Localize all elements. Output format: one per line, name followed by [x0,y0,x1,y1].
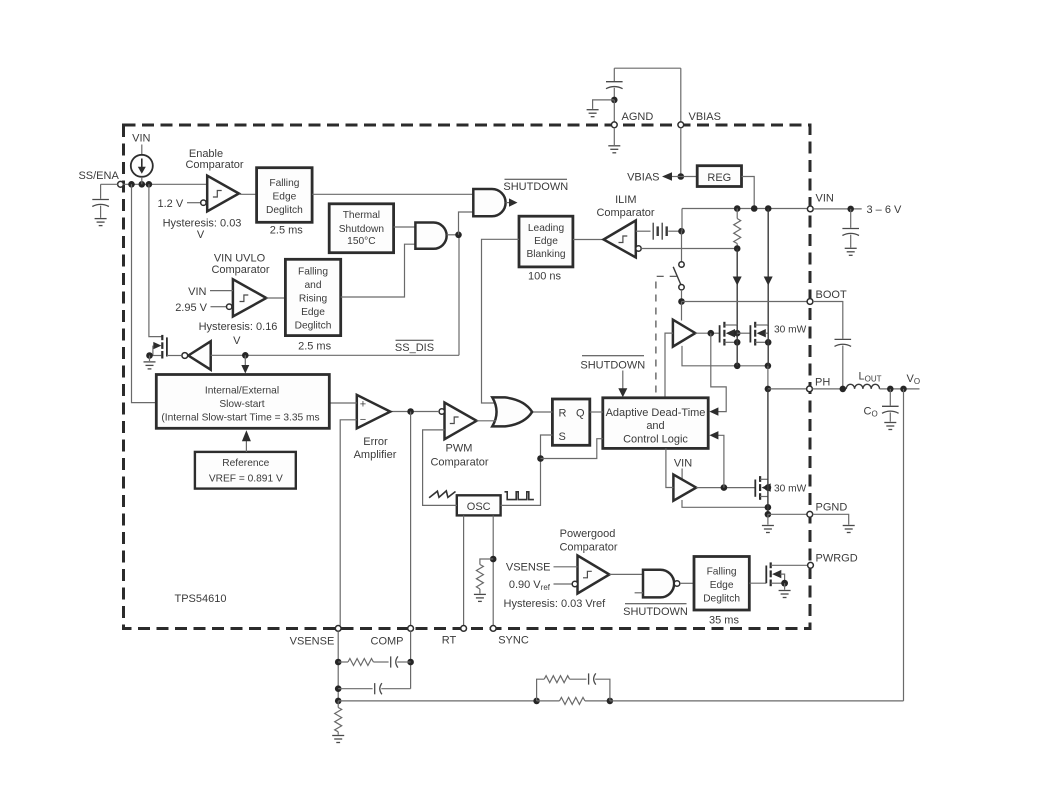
inverter U2 [167,341,211,369]
svg-text:Falling: Falling [298,267,328,278]
svg-text:SHUTDOWN: SHUTDOWN [623,606,688,618]
node VIN input UVLO [188,286,233,298]
resistor feedback parallel branch [537,676,587,701]
svg-text:Deglitch: Deglitch [703,594,740,605]
wire driver input from adaptive logic [666,448,674,487]
capacitor bootstrap [813,302,851,389]
svg-text:35 ms: 35 ms [709,615,739,627]
wire error amp minus to VSENSE [340,420,357,626]
clock symbol pulses [505,492,534,500]
svg-text:and: and [305,280,322,291]
svg-text:Edge: Edge [534,236,558,247]
wire to M4 drain [149,184,162,336]
svg-text:AGND: AGND [622,111,654,123]
ground below M4 [144,362,156,369]
wire PGND rail [765,511,772,518]
wire VO feedback down [903,389,905,701]
switch ILIM [673,262,685,305]
block B5 Adaptive Dead-Time and Control Logic [603,398,708,449]
wire B4 to OR gate [482,239,520,403]
wire driver output to gates [695,332,719,334]
node 3-6V input [813,204,902,216]
svg-text:Comparator: Comparator [185,159,243,171]
svg-text:Reference: Reference [222,458,269,469]
svg-text:VIN: VIN [188,286,206,298]
wire clock branch to adaptive logic [541,439,603,459]
ground below M5 [779,591,791,598]
capacitor input VIN [842,209,859,248]
ground below CO [884,423,896,430]
svg-text:PGND: PGND [816,502,848,514]
wire current path arrow to M1 drain [733,249,742,326]
node 1.2 V reference input [158,198,207,210]
svg-text:COMP: COMP [371,635,404,647]
svg-text:PWM: PWM [446,442,473,454]
ground below SS/ENA cap [95,219,107,226]
transistor M4 slow-start discharge [146,335,167,361]
op-amp U9 Powergood Comparator [559,528,617,594]
node VSENSE pin [290,626,341,648]
svg-text:+: + [360,399,366,411]
svg-text:SS/ENA: SS/ENA [78,170,119,182]
node SYNC pin [490,626,529,647]
svg-text:Amplifier: Amplifier [354,449,397,461]
op-amp U7 Error Amplifier [354,395,397,461]
svg-text:Comparator: Comparator [596,207,654,219]
wire driver lower rail to source line [682,346,768,366]
wire VIN rail corner down to battery [681,209,683,232]
svg-text:Falling: Falling [707,567,737,578]
svg-text:Error: Error [363,436,388,448]
node SS/ENA pin [78,170,123,187]
svg-text:2.5 ms: 2.5 ms [270,224,304,236]
node PH pin [807,377,831,392]
svg-text:Adaptive Dead-Time: Adaptive Dead-Time [606,407,706,419]
block B2 Falling and Rising Edge Deglitch [285,259,340,352]
op-amp U1 Enable Comparator [185,148,243,211]
wire ILIM minus input [641,248,737,250]
wire VIN rail [682,208,807,210]
svg-text:Slow-start: Slow-start [219,399,264,410]
node hysteresis note [163,218,242,241]
wire driver lower rail [682,500,768,507]
wire current path arrow to M2 drain [764,209,773,326]
wire G2 output arrow [506,198,518,206]
wire enable comp to deglitch [239,193,257,195]
resistor VSENSE to ground [335,701,342,735]
node 2.95 V input [175,302,232,314]
wire ILIM comp to B4 [573,239,604,241]
ground below RT resistor [474,594,486,601]
svg-text:VIN: VIN [132,133,150,145]
block REG [681,166,742,187]
op-amp U4 ILIM Comparator [596,194,654,257]
wire SS/ENA to cap [101,183,118,185]
wire ILIM plus input [636,230,651,232]
svg-text:SS_DIS: SS_DIS [395,342,434,354]
svg-text:S: S [559,431,566,443]
ground left of AGND [587,110,599,117]
wire NAND to deglitch B10 [680,582,694,584]
wire gate feedback to adaptive logic low [709,431,724,488]
ground external PGND [813,514,855,532]
wire OSC clock to S input [501,435,553,505]
svg-text:Falling: Falling [269,178,299,189]
svg-text:VBIAS: VBIAS [689,111,721,123]
svg-text:VSENSE: VSENSE [506,562,551,574]
ground below M3 source [762,514,774,532]
ground below VIN cap [845,248,857,255]
wire VBIAS pin down to REG [680,128,682,177]
svg-text:30 mW: 30 mW [774,483,807,494]
block B9 OSC [457,495,501,515]
wire PH rail [767,366,769,389]
node PWRGD pin [808,553,858,569]
svg-text:3 – 6 V: 3 – 6 V [867,204,903,216]
latch B6 RS [552,399,589,445]
svg-text:Deglitch: Deglitch [295,321,332,332]
svg-text:Hysteresis: 0.03: Hysteresis: 0.03 [163,218,242,230]
block B1 Falling Edge Deglitch [257,168,313,237]
svg-text:Shutdown: Shutdown [339,224,384,235]
node COMP pin [371,626,414,648]
transistor M2 high-side parallel [750,322,806,366]
wire B2 to AND G1 [341,244,416,297]
svg-text:Thermal: Thermal [343,210,380,221]
node AGND pin [611,111,653,128]
gate G1 AND [415,223,446,249]
svg-text:Comparator: Comparator [559,541,617,553]
svg-text:150°C: 150°C [347,236,375,247]
wire COMP net down [410,412,412,626]
node hysteresis note UVLO [199,321,278,347]
svg-text:1.2 V: 1.2 V [158,198,184,210]
resistor feedback series [560,697,585,704]
svg-text:VBIAS: VBIAS [627,172,659,184]
svg-text:VIN: VIN [816,193,834,205]
node SHUTDOWN label powergood [623,604,688,618]
capacitor feedback parallel branch [589,673,610,701]
resistor RT-SYNC to ground [476,559,493,594]
svg-text:(Internal Slow-start Time = 3.: (Internal Slow-start Time = 3.35 ms [161,412,319,423]
svg-text:30 mW: 30 mW [774,324,807,335]
node AGND external cap [593,68,681,109]
wire SS_DIS line [211,354,459,356]
svg-text:SHUTDOWN: SHUTDOWN [503,181,568,193]
wire M1 body to M2 gate [737,332,750,334]
node SHUTDOWN label top [503,179,568,193]
capacitor comp CZ [391,656,411,667]
svg-text:Blanking: Blanking [526,249,565,260]
svg-text:PWRGD: PWRGD [816,553,858,565]
wire G1 output [447,234,456,236]
battery offset symbol [653,223,685,240]
node PGND pin [807,502,847,518]
svg-text:Comparator: Comparator [211,264,269,276]
node RT pin [442,626,467,647]
svg-text:Hysteresis: 0.16: Hysteresis: 0.16 [199,321,278,333]
svg-text:R: R [559,408,567,420]
gate G4 NAND powergood [635,570,680,598]
block B8 Reference [195,452,296,489]
svg-text:ILIM: ILIM [615,194,636,206]
svg-text:Leading: Leading [528,223,565,234]
high-side driver U5 [673,320,695,347]
svg-text:2.5 ms: 2.5 ms [298,340,332,352]
low-side driver U8 [673,475,696,501]
wire UVLO comp to deglitch B2 [266,297,285,299]
wire driver output to M3 gate [696,487,755,489]
svg-text:PH: PH [815,377,830,389]
capacitor comp CP branch [338,683,410,694]
node VSENSE input powergood [506,562,578,574]
IC boundary dashed border [124,125,811,629]
op-amp U6 PWM Comparator [430,403,488,469]
wire BOOT to high-side driver [681,302,683,321]
svg-text:Control Logic: Control Logic [623,434,688,446]
wire left vertical to slow-start [132,184,157,402]
wire PWM output to OR [477,420,496,422]
svg-text:Hysteresis: 0.03 Vref: Hysteresis: 0.03 Vref [504,598,607,610]
svg-text:OSC: OSC [467,501,491,513]
svg-text:V: V [233,335,241,347]
svg-text:Internal/External: Internal/External [205,385,279,396]
inductor LOUT [846,371,881,389]
wire COMP external vertical [410,631,412,688]
ramp symbol sawtooth [429,491,455,498]
node VO output [880,373,921,392]
wire BOOT rail [682,301,808,303]
block B10 Falling Edge Deglitch 35ms [694,557,749,627]
svg-text:Deglitch: Deglitch [266,205,303,216]
wire powergood comp to NAND [609,573,643,575]
node VIN label low-side driver [674,458,692,479]
svg-text:100 ns: 100 ns [528,270,562,282]
svg-text:VIN: VIN [674,458,692,470]
wire error amp out to PWM [390,411,439,413]
op-amp U3 VIN UVLO Comparator [211,253,269,317]
wire PH external [812,388,846,390]
wire OR gate to R input [532,411,552,413]
svg-text:Edge: Edge [273,192,297,203]
svg-text:SYNC: SYNC [498,634,529,646]
svg-text:V: V [197,229,205,241]
wire thermal to AND G1 [394,226,416,228]
resistor comp RZ [338,659,388,666]
wire SS_DIS up to AND output node [458,235,460,355]
capacitor C_ssena [92,184,109,218]
node 0.90 Vref input [509,579,578,592]
block B3 Thermal Shutdown [329,204,393,253]
wire deglitch to PWRGD fet gate [749,582,766,584]
ground below VSENSE resistor [332,736,344,743]
node SHUTDOWN label into adaptive logic [580,356,645,398]
block B7 Internal/External Slow-start [156,375,329,429]
transistor M5 PWRGD open drain [766,562,807,589]
wire dashed ILIM control to adaptive logic [656,276,677,398]
svg-text:Q: Q [576,408,585,420]
wire VSENSE external vertical [337,631,339,701]
resistor Rsense [734,209,741,252]
transistor M3 low-side [755,389,806,514]
svg-text:RT: RT [442,634,457,646]
wire gate feedback to adaptive logic [709,333,726,416]
wire deglitch to AND G2 [312,193,473,195]
wire REG output to VIN rail [742,177,755,209]
svg-text:BOOT: BOOT [816,289,847,301]
node junction dots on SS/ENA net [128,181,135,188]
capacitor CO [864,389,899,422]
wire SS/ENA into IC [123,183,207,185]
gate G2 AND shutdown [473,189,505,216]
svg-text:VSENSE: VSENSE [290,635,335,647]
svg-text:VIN UVLO: VIN UVLO [214,253,266,265]
svg-text:and: and [646,420,664,432]
wire G1 out up to G2 input [459,212,474,235]
wire Q to adaptive logic [590,411,603,413]
wire PWM lower input from OSC [423,430,457,506]
wire SYNC pin to OSC [492,515,494,625]
wire slow-start to error amp plus [329,402,357,404]
wire cap node to AGND pin [613,100,615,122]
svg-text:Edge: Edge [301,307,325,318]
wire feedback bottom rail [338,700,536,702]
svg-text:Edge: Edge [710,580,734,591]
wire RT pin to OSC [463,515,465,625]
wire driver input from adaptive logic [665,333,673,398]
current source I1 VIN [131,133,153,185]
wire arrow into slow-start box [241,355,249,373]
svg-text:VREF = 0.891 V: VREF = 0.891 V [209,473,283,484]
svg-text:SHUTDOWN: SHUTDOWN [580,359,645,371]
svg-text:Comparator: Comparator [430,457,488,469]
node VIN pin [807,193,833,212]
svg-text:Enable: Enable [189,148,223,160]
node VBIAS pin [678,68,721,128]
svg-text:−: − [360,414,366,426]
ground below AGND [608,128,620,153]
svg-text:2.95 V: 2.95 V [175,302,207,314]
node SS_DIS label [395,340,434,354]
gate G3 OR [492,397,532,426]
block B4 Leading Edge Blanking [519,216,573,282]
svg-text:REG: REG [707,172,731,184]
transistor M1 high-side [720,322,741,366]
wire reference arrow to slow-start [242,430,251,452]
node BOOT pin [807,289,847,304]
svg-text:Powergood: Powergood [560,528,616,540]
svg-text:Rising: Rising [299,294,328,305]
node VBIAS internal rail arrow [627,172,681,184]
svg-text:TPS54610: TPS54610 [175,593,227,605]
